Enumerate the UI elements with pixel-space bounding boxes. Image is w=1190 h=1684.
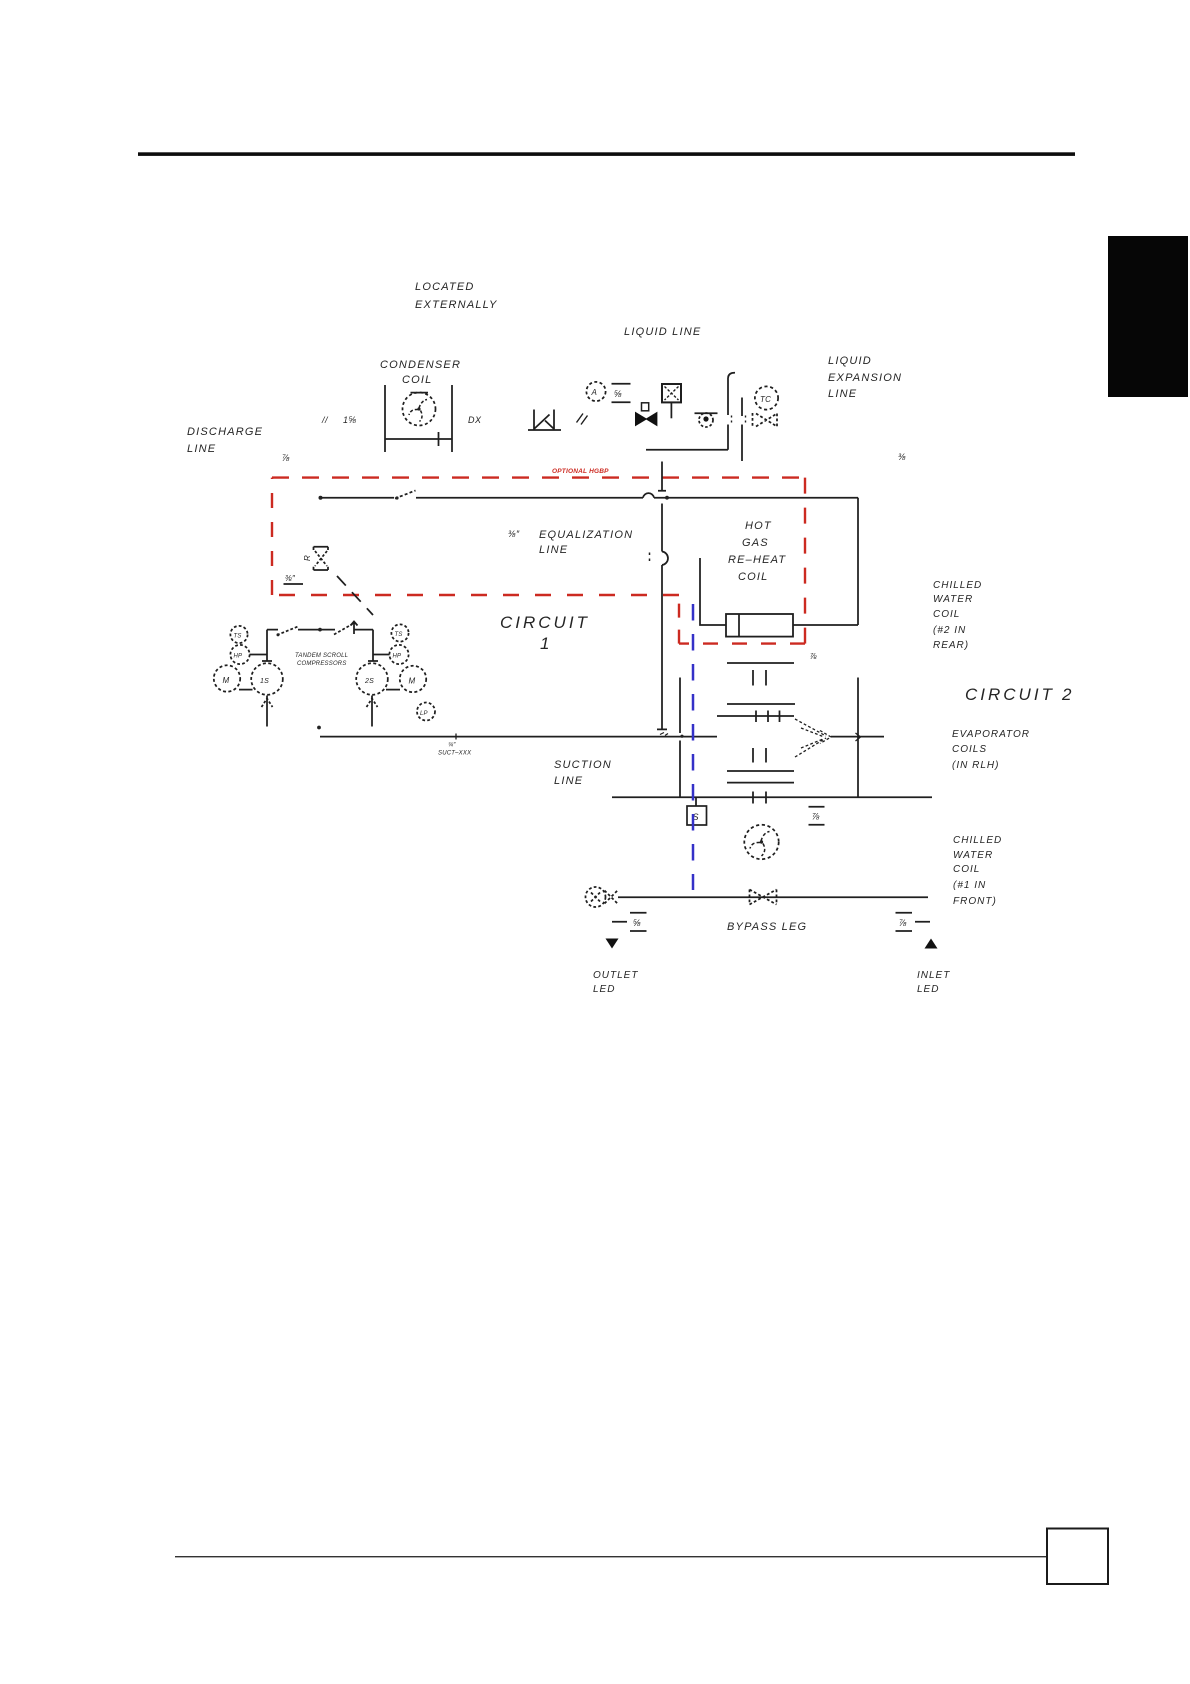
svg-text:TS: TS bbox=[234, 634, 242, 640]
bypass leg line bbox=[618, 896, 928, 898]
svg-text:COIL: COIL bbox=[402, 374, 432, 386]
svg-text:OUTLET: OUTLET bbox=[593, 970, 638, 981]
compressor group 1 bbox=[214, 626, 283, 727]
svg-text:LINE: LINE bbox=[187, 443, 216, 455]
svg-text:LINE: LINE bbox=[554, 775, 583, 787]
suction stub 1 bbox=[266, 696, 268, 727]
sight glass SG1 bbox=[695, 413, 718, 427]
svg-text:TANDEM SCROLL: TANDEM SCROLL bbox=[295, 653, 348, 659]
label CHILLED WATER COIL #1 bbox=[953, 835, 1002, 907]
svg-text:TS: TS bbox=[395, 632, 403, 638]
svg-text:(#2 IN: (#2 IN bbox=[933, 625, 966, 636]
side tab bbox=[1108, 236, 1188, 397]
svg-text:⅞: ⅞ bbox=[899, 918, 907, 928]
svg-text:OPTIONAL HGBP: OPTIONAL HGBP bbox=[552, 468, 609, 475]
size callout 5/8 outlet bbox=[612, 913, 647, 931]
label OPTIONAL HGBP (red) bbox=[552, 468, 609, 475]
svg-text:CIRCUIT: CIRCUIT bbox=[500, 613, 590, 632]
inlet arrow bbox=[925, 939, 938, 949]
solenoid S stub bbox=[695, 797, 697, 806]
label DX right bbox=[468, 415, 482, 425]
sensor TS1 bbox=[230, 626, 247, 643]
svg-text:WATER: WATER bbox=[933, 594, 973, 605]
blue control line bbox=[692, 604, 695, 890]
svg-text:⅜: ⅜ bbox=[898, 452, 906, 462]
svg-text:SUCT–XXX: SUCT–XXX bbox=[438, 751, 472, 757]
svg-text:⅝: ⅝ bbox=[633, 918, 641, 928]
label CIRCUIT 2 bbox=[965, 685, 1074, 704]
label LIQUID LINE bbox=[624, 326, 701, 338]
svg-text:¾″: ¾″ bbox=[448, 743, 456, 749]
svg-text:⅞: ⅞ bbox=[810, 652, 817, 661]
label 3/8 under R bbox=[285, 574, 296, 583]
svg-text:1S: 1S bbox=[260, 678, 269, 685]
label TANDEM SCROLL COMPRESSORS bbox=[295, 653, 348, 667]
svg-text:LP: LP bbox=[420, 711, 428, 717]
condenser coil C1 bbox=[385, 385, 452, 452]
liquid feed vertical into hgbp bbox=[658, 462, 666, 492]
liquid line L-pipe bbox=[646, 373, 735, 450]
svg-text:R: R bbox=[303, 555, 312, 561]
svg-text:DISCHARGE: DISCHARGE bbox=[187, 426, 263, 438]
svg-text:HP: HP bbox=[234, 654, 243, 660]
liquid drop pipe bbox=[741, 398, 743, 462]
label EVAPORATOR COILS bbox=[952, 729, 1030, 771]
label 7/8 above evap bbox=[810, 652, 817, 661]
label INLET LED bbox=[917, 970, 950, 995]
svg-text:A: A bbox=[591, 388, 598, 397]
svg-text:1: 1 bbox=[540, 634, 552, 653]
TC sensor bbox=[755, 386, 778, 409]
svg-text:TC: TC bbox=[760, 395, 771, 404]
size callout 7/8 inlet bbox=[896, 913, 931, 931]
label CIRCUIT 1 bbox=[500, 613, 590, 653]
svg-text:COIL: COIL bbox=[933, 609, 960, 620]
svg-text:LINE: LINE bbox=[539, 544, 568, 556]
size label 3/4 left bbox=[282, 453, 290, 463]
svg-text:EVAPORATOR: EVAPORATOR bbox=[952, 729, 1030, 740]
expansion valve TXV bbox=[753, 413, 778, 427]
svg-text:COILS: COILS bbox=[952, 744, 987, 755]
outlet arrow bbox=[606, 939, 619, 949]
lower suction header bbox=[612, 796, 932, 798]
svg-text:⅜″: ⅜″ bbox=[508, 529, 520, 539]
drain valve circle bbox=[586, 887, 606, 907]
svg-text:GAS: GAS bbox=[742, 537, 769, 549]
svg-text:RE–HEAT: RE–HEAT bbox=[728, 554, 786, 566]
size callout 5/8 bbox=[612, 384, 631, 403]
label LOCATED EXTERNALLY bbox=[415, 281, 498, 311]
main vertical riser bbox=[657, 504, 667, 730]
compressor 1 bbox=[251, 663, 283, 695]
evap left feed pipe bbox=[679, 678, 681, 798]
label LIQUID EXPANSION LINE bbox=[828, 355, 902, 400]
svg-text:REAR): REAR) bbox=[933, 640, 969, 651]
svg-text:M: M bbox=[409, 677, 416, 686]
hot gas regulator R bbox=[303, 547, 328, 570]
label BYPASS LEG bbox=[727, 921, 807, 933]
suction line bbox=[317, 726, 884, 741]
svg-text:HOT: HOT bbox=[745, 520, 772, 532]
label DISCHARGE LINE bbox=[187, 426, 263, 455]
svg-text:(#1 IN: (#1 IN bbox=[953, 880, 986, 891]
hot gas reheat drop pipe bbox=[857, 498, 859, 625]
evaporator coil rows bbox=[717, 663, 795, 804]
svg-text:EXTERNALLY: EXTERNALLY bbox=[415, 299, 498, 311]
sensor LP2 bbox=[417, 703, 435, 721]
label CHILLED WATER COIL #2 bbox=[933, 580, 982, 651]
svg-text:(IN RLH): (IN RLH) bbox=[952, 760, 999, 771]
label DX left bbox=[321, 415, 357, 425]
label OUTLET LED bbox=[593, 970, 638, 995]
check valve on liquid line bbox=[528, 410, 561, 431]
svg-text:DX: DX bbox=[468, 415, 482, 425]
chilled water pump P1 bbox=[744, 825, 778, 859]
wire crossing hop marks bbox=[731, 416, 733, 423]
label CONDENSER COIL bbox=[380, 359, 461, 386]
label 7/8 SUCT bbox=[438, 743, 472, 757]
svg-text:⅞: ⅞ bbox=[812, 812, 820, 822]
svg-text:1⅝: 1⅝ bbox=[343, 415, 357, 425]
evap right return pipe bbox=[857, 678, 859, 798]
discharge header bbox=[262, 622, 378, 662]
svg-text:M: M bbox=[223, 676, 230, 685]
header rule bbox=[138, 152, 1075, 156]
svg-text:2: 2 bbox=[1061, 685, 1074, 704]
svg-text:SUCTION: SUCTION bbox=[554, 759, 612, 771]
pipe hop bbox=[643, 493, 654, 498]
hot gas bypass red dashed box bbox=[272, 478, 805, 644]
svg-text:LOCATED: LOCATED bbox=[415, 281, 475, 293]
filter drier FD1 bbox=[662, 384, 681, 418]
sensor HP1 bbox=[230, 645, 249, 664]
solenoid valve SV1 bbox=[636, 403, 657, 426]
hot gas bypass line bbox=[319, 491, 859, 500]
motor M1 bbox=[214, 665, 240, 691]
svg-text:COIL: COIL bbox=[953, 864, 980, 875]
gauge A bbox=[586, 382, 605, 401]
svg-text:2S: 2S bbox=[364, 678, 374, 685]
svg-text:BYPASS LEG: BYPASS LEG bbox=[727, 921, 807, 933]
label SUCTION LINE bbox=[554, 759, 612, 787]
label 3/8 EQUALIZATION LINE bbox=[508, 529, 633, 556]
page number box bbox=[1047, 1529, 1108, 1585]
label HOT GAS RE-HEAT COIL bbox=[728, 520, 786, 583]
svg-text:COIL: COIL bbox=[738, 571, 768, 583]
compressor group 2 bbox=[356, 624, 435, 726]
svg-text:INLET: INLET bbox=[917, 970, 950, 981]
line break marks bbox=[577, 414, 588, 425]
riser hop bbox=[662, 552, 668, 566]
distributor spray arrow bbox=[795, 719, 831, 757]
svg-text:EXPANSION: EXPANSION bbox=[828, 372, 902, 384]
svg-text:CONDENSER: CONDENSER bbox=[380, 359, 461, 371]
svg-text:EQUALIZATION: EQUALIZATION bbox=[539, 529, 633, 541]
dashed control link bbox=[337, 576, 373, 615]
svg-text:CHILLED: CHILLED bbox=[953, 835, 1002, 846]
svg-text:⅜″: ⅜″ bbox=[285, 574, 296, 583]
size label 3/4 right bbox=[898, 452, 906, 462]
svg-text:COMPRESSORS: COMPRESSORS bbox=[297, 661, 347, 667]
size callout 7/8 K bbox=[809, 807, 825, 825]
footer rule bbox=[175, 1556, 1047, 1557]
svg-text:HP: HP bbox=[393, 654, 402, 660]
svg-text:CHILLED: CHILLED bbox=[933, 580, 982, 591]
svg-text:WATER: WATER bbox=[953, 850, 993, 861]
bypass valve BV bbox=[750, 890, 777, 905]
svg-text:⅝: ⅝ bbox=[614, 389, 622, 399]
svg-text:⅞: ⅞ bbox=[282, 453, 290, 463]
svg-text://: // bbox=[321, 415, 329, 425]
svg-text:FRONT): FRONT) bbox=[953, 896, 997, 907]
svg-text:LED: LED bbox=[917, 984, 939, 995]
hgbp service valve flap bbox=[395, 491, 416, 499]
solenoid S box bbox=[687, 806, 707, 825]
svg-text:LINE: LINE bbox=[828, 388, 857, 400]
svg-text:LIQUID: LIQUID bbox=[828, 355, 872, 367]
svg-text:LIQUID LINE: LIQUID LINE bbox=[624, 326, 701, 338]
shutoff valve at drain bbox=[605, 891, 618, 904]
svg-text:LED: LED bbox=[593, 984, 615, 995]
svg-text:CIRCUIT: CIRCUIT bbox=[965, 685, 1055, 704]
reheat coil HGR bbox=[700, 558, 858, 637]
